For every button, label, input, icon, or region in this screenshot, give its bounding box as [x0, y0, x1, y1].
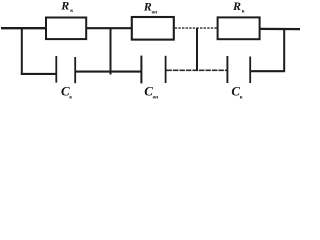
label Cк (left capacitor): [61, 84, 72, 101]
svg-text:к: к: [69, 94, 72, 100]
wire top rail left segment: [1, 27, 46, 29]
label Rк (right resistor): [232, 0, 245, 15]
label Rвн: [143, 0, 157, 16]
svg-text:вн: вн: [152, 10, 158, 16]
wire bottom rail node A to Cк: [21, 73, 56, 75]
svg-text:R: R: [143, 0, 152, 14]
resistor Rвн: [132, 17, 174, 40]
wire top rail between Rвн and Rк (dashed): [175, 27, 217, 29]
svg-text:к: к: [70, 8, 73, 14]
wire bottom rail Cк to node D: [251, 70, 285, 72]
svg-text:R: R: [232, 0, 241, 13]
wire top rail between Rк and Rвн: [87, 27, 131, 29]
capacitor Cк (left): [56, 56, 75, 83]
wire bottom rail Cвн to Cк (dashed): [166, 69, 227, 71]
wire junction drop at node C: [196, 28, 198, 71]
label Cк (right capacitor): [231, 84, 242, 101]
wire top rail right segment: [260, 28, 300, 30]
svg-text:вн: вн: [153, 95, 159, 101]
capacitor Cвн: [141, 56, 165, 84]
label Rк (left resistor): [60, 0, 73, 14]
label Cвн: [144, 84, 158, 101]
wire bottom rail Cк to Cвн: [76, 71, 141, 73]
svg-text:к: к: [240, 95, 243, 101]
resistor Rк (right): [218, 17, 260, 39]
wire junction drop at node D: [283, 29, 285, 72]
wire junction drop at node B: [110, 28, 112, 74]
wire junction drop at node A: [21, 28, 23, 74]
svg-text:R: R: [60, 0, 69, 12]
svg-text:к: к: [242, 9, 245, 15]
capacitor Cк (right): [227, 56, 250, 83]
resistor Rк (left): [46, 18, 86, 40]
